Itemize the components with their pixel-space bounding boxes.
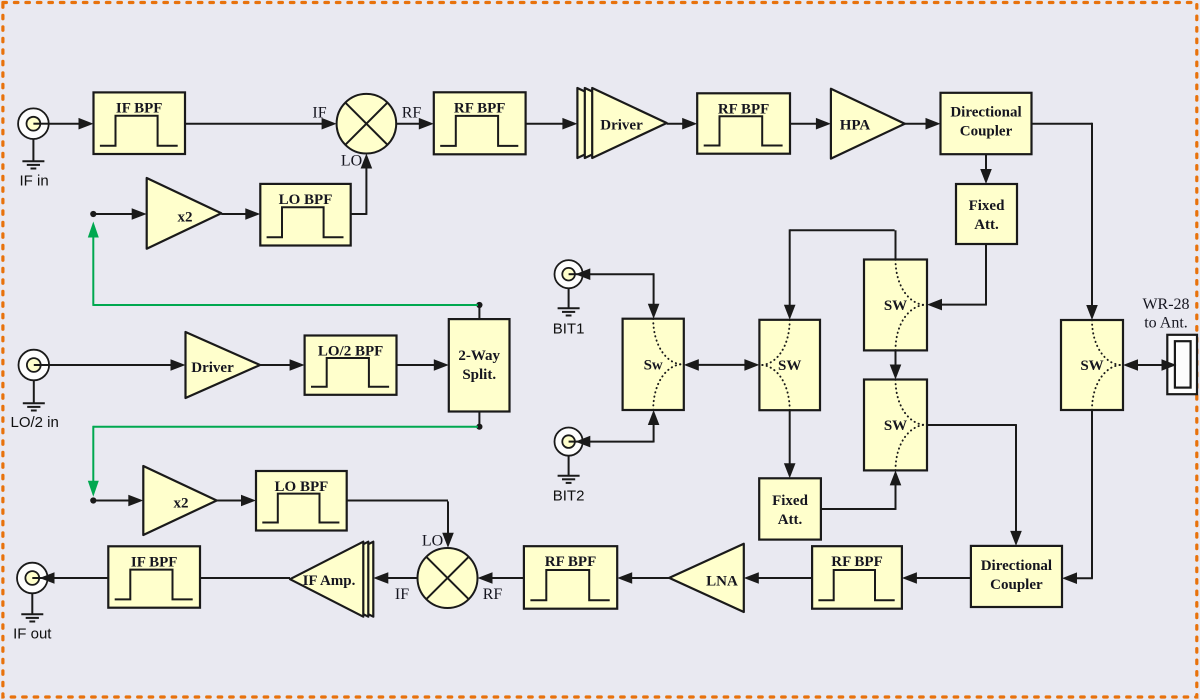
switch SW A [864,260,927,351]
wire splitter top port [478,305,480,319]
svg-text:LO/2 in: LO/2 in [11,414,59,431]
svg-text:LO/2 BPF: LO/2 BPF [318,344,383,360]
filter RF BPF (bottom right) [812,546,902,609]
wire mixer to RF BPF [396,118,434,130]
svg-text:LO BPF: LO BPF [275,479,329,495]
wire Sw to SW B (double arrow) [684,359,760,371]
svg-text:Split.: Split. [462,367,496,383]
svg-text:SW: SW [884,418,907,434]
svg-text:BIT1: BIT1 [553,321,585,338]
node label LO (mixer1) [341,153,362,170]
junction node (splitter bottom) [476,424,482,430]
wire green feedback bottom [88,426,478,497]
filter IF BPF (bottom) [108,546,200,607]
wire RF BPF3 to LNA [744,572,812,584]
node label RF (mixer1 out) [402,105,422,122]
wire IF BPF to mixer [185,118,337,130]
svg-text:RF BPF: RF BPF [454,100,506,116]
svg-text:LO: LO [341,153,362,170]
wire LO/2 in to driver [49,359,185,371]
svg-text:x2: x2 [174,496,189,512]
label BIT2 [553,488,585,505]
filter IF BPF (top) [94,92,186,154]
multiplier x2 (bottom) [143,466,216,535]
wire RF BPF to Driver [526,118,578,130]
svg-text:BIT2: BIT2 [553,488,585,505]
wire IF in to IF BPF [49,118,94,130]
wire green feedback top [88,222,478,306]
wire RF BPF4 to mixer2 [478,572,524,584]
filter RF BPF (top 1) [434,92,526,154]
attenuator Fixed Att (bottom) [759,478,821,539]
switch Sw (BIT select) [623,319,684,410]
connector J1 IF in [18,108,49,139]
filter LO BPF (bottom) [256,471,347,531]
wire Sw to BIT2 [575,410,659,447]
svg-text:Coupler: Coupler [960,124,1013,140]
connector J5 IF out [17,563,48,594]
label WR-28 to Ant. [1142,296,1189,332]
wire x2 to LO BPF [221,208,260,220]
wire node to x2 (bottom) [93,495,143,507]
amplifier LNA [669,544,744,612]
svg-text:WR-28: WR-28 [1142,296,1189,313]
svg-text:IF out: IF out [13,626,52,643]
wire node to x2 [93,208,146,220]
wire SW C to DC2 [927,424,1022,546]
filter LO/2 BPF [305,336,397,395]
svg-text:Coupler: Coupler [990,577,1043,593]
node label IF (mixer2 out) [395,586,409,603]
ground (BIT2) [558,456,580,483]
svg-text:to Ant.: to Ant. [1144,315,1188,332]
amplifier IF Amp [290,542,373,617]
wire LO/2 BPF to splitter [397,359,449,371]
ground (IF out) [21,593,43,621]
svg-text:SW: SW [1080,358,1103,374]
svg-text:Fixed: Fixed [772,493,808,509]
mixer MX2 [418,548,478,608]
label IF out [13,626,52,643]
svg-text:IF BPF: IF BPF [116,100,163,116]
connector J2 LO/2 in [19,350,50,381]
svg-text:Directional: Directional [950,105,1021,121]
ground (LO/2 in) [23,380,45,410]
label LO/2 in [11,414,59,431]
svg-text:IF: IF [395,586,409,603]
svg-text:Fixed: Fixed [969,198,1005,214]
svg-text:IF: IF [312,105,326,122]
wire SW D to DC2 [1062,410,1093,584]
wire fixed att to SW A [927,244,987,310]
directional coupler DC1 [941,93,1032,154]
svg-text:RF: RF [402,105,422,122]
wire SW B to fixed att 2 [784,410,796,478]
connector J3 BIT1 [555,260,583,288]
wire LO BPF to mixer2 LO port [347,501,454,548]
svg-text:SW: SW [778,358,801,374]
svg-text:IF Amp.: IF Amp. [303,573,356,589]
svg-text:Driver: Driver [191,360,234,376]
switch SW D (antenna) [1061,320,1123,410]
switch SW C [864,380,927,471]
wire RF BPF2 to HPA [790,118,831,130]
svg-text:RF: RF [483,586,503,603]
wire Driver to RF BPF2 [667,118,698,130]
wire IF Amp to IF BPF2 [200,577,290,579]
power splitter 2-Way Split [449,319,510,411]
ground (BIT1) [558,288,580,315]
node label IF (mixer1 in) [312,105,326,122]
wire LNA to RF BPF4 [617,572,669,584]
connector J4 BIT2 [555,428,583,456]
mixer MX1 [337,94,397,154]
filter RF BPF (top 2) [697,93,790,153]
wire SW D to waveguide (double arrow) [1123,359,1177,371]
wire fixed att 2 to SW C [821,470,901,510]
svg-text:SW: SW [884,298,907,314]
directional coupler DC2 [971,546,1062,607]
multiplier x2 (top) [147,178,222,249]
wire Sw to BIT1 [575,268,659,318]
svg-text:Att.: Att. [778,512,803,528]
waveguide WR-28 flange [1167,335,1197,394]
svg-text:RF BPF: RF BPF [718,101,770,117]
amplifier Driver (top) [577,88,666,158]
svg-text:2-Way: 2-Way [458,348,500,364]
junction node (splitter top) [476,302,482,308]
svg-text:Driver: Driver [600,117,643,133]
amplifier Driver (LO/2) [186,332,261,398]
ground (IF in) [22,139,44,169]
svg-text:Sw: Sw [644,358,663,374]
wire DC1 to fixed att [980,154,992,184]
wire x2 to LO BPF (bottom) [217,495,256,507]
wire SW A to SW B [784,229,896,319]
label IF in [20,173,49,190]
svg-text:IF in: IF in [20,173,49,190]
svg-text:RF BPF: RF BPF [545,554,597,570]
node label LO (mixer2) [422,533,443,550]
wire splitter bottom port [478,412,480,427]
node label RF (mixer2 in) [483,586,503,603]
svg-text:IF BPF: IF BPF [131,554,178,570]
wire HPA to coupler [905,118,941,130]
arrow into IF out [40,572,55,584]
svg-text:LO: LO [422,533,443,550]
label BIT1 [553,321,585,338]
svg-text:HPA: HPA [840,118,871,134]
svg-text:Directional: Directional [981,558,1052,574]
junction node (LO2) [90,497,96,503]
attenuator Fixed Att (top) [956,184,1017,244]
wire IF BPF2 to IF out [52,577,108,579]
wire LO BPF to mixer1 LO port [351,154,373,215]
amplifier HPA [831,89,905,159]
filter LO BPF (top) [260,184,350,246]
wire driver to LO/2 BPF [260,359,305,371]
filter RF BPF (bottom left) [524,546,617,609]
wire DC1 to antenna SW [1032,123,1098,320]
svg-text:RF BPF: RF BPF [831,554,883,570]
junction node (LO1) [90,211,96,217]
svg-text:LO BPF: LO BPF [279,192,333,208]
wire SW A to SW C [890,350,902,379]
svg-text:LNA: LNA [706,574,738,590]
wire mixer2 to IF Amp [373,572,417,584]
switch SW B [759,320,820,410]
svg-text:x2: x2 [178,209,193,225]
svg-text:Att.: Att. [974,217,999,233]
wire DC2 to RF BPF3 [902,572,971,584]
